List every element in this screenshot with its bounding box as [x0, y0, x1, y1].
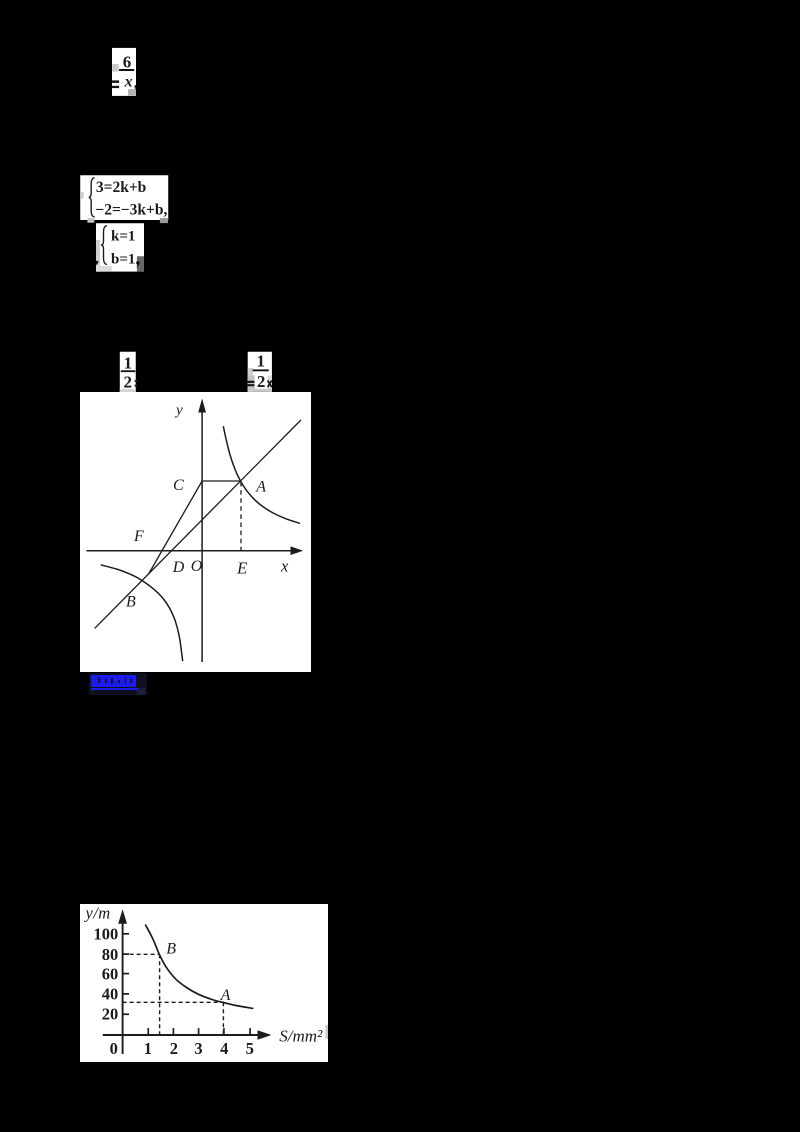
- equation system 1: 3=2k+b ; -2=-3k+b: [80, 175, 172, 225]
- svg-text:2: 2: [257, 372, 266, 391]
- svg-text:E: E: [236, 558, 248, 577]
- svg-text:60: 60: [102, 964, 119, 983]
- curve: [145, 924, 253, 1008]
- svg-text:3: 3: [194, 1038, 202, 1057]
- svg-text:O: O: [191, 558, 203, 575]
- segment CA: [202, 480, 240, 482]
- svg-text:80: 80: [102, 944, 119, 963]
- hyperbola upper branch: [223, 426, 300, 523]
- line AB: [94, 420, 300, 628]
- svg-text:40: 40: [102, 984, 119, 1003]
- x axis: [103, 1034, 259, 1036]
- svg-text:2: 2: [123, 373, 132, 392]
- fraction 1/2 (first): [119, 351, 139, 393]
- segment BC: [148, 481, 202, 574]
- svg-text:F: F: [133, 528, 144, 545]
- x axis: [86, 550, 293, 552]
- dashed helper lines: [123, 953, 160, 955]
- x ticks: [147, 1028, 149, 1035]
- svg-text:B: B: [166, 940, 176, 957]
- equation system 2: k=1 ; b=1: [95, 218, 149, 274]
- svg-text:2: 2: [170, 1038, 178, 1057]
- y ticks: [123, 932, 129, 934]
- svg-text:100: 100: [93, 924, 118, 943]
- svg-text:4: 4: [220, 1038, 228, 1057]
- dashed AE: [240, 482, 242, 550]
- blue label below figure: [89, 673, 147, 696]
- svg-text:x: x: [280, 556, 289, 575]
- function chart (graph 2): [80, 904, 328, 1062]
- svg-text:b=1: b=1: [111, 252, 135, 268]
- svg-text:B: B: [126, 594, 136, 611]
- svg-text:3=2k+b: 3=2k+b: [96, 179, 146, 196]
- svg-text:C: C: [173, 477, 184, 494]
- svg-text:0: 0: [110, 1038, 118, 1057]
- svg-text:5: 5: [246, 1038, 254, 1057]
- svg-text:1: 1: [144, 1038, 152, 1057]
- fraction =1/2x (second): [246, 351, 274, 393]
- svg-text:A: A: [220, 986, 231, 1003]
- svg-text:D: D: [172, 559, 185, 576]
- svg-text:1: 1: [124, 354, 132, 373]
- hyperbola lower branch: [100, 565, 182, 661]
- coordinate-plane figure (graph 1): [80, 392, 311, 672]
- svg-text:−2=−3k+b,: −2=−3k+b,: [95, 201, 167, 218]
- fraction 6/x equation image: [110, 46, 140, 98]
- svg-text:S/mm²: S/mm²: [279, 1026, 323, 1045]
- svg-text:1: 1: [256, 352, 265, 371]
- y axis: [201, 408, 203, 662]
- svg-text:y/m: y/m: [84, 904, 111, 922]
- svg-text:k=1: k=1: [111, 228, 135, 244]
- svg-text:6: 6: [123, 52, 132, 71]
- y axis: [122, 920, 124, 1054]
- svg-text:y: y: [174, 403, 183, 419]
- svg-text:20: 20: [102, 1004, 119, 1023]
- svg-text:x: x: [124, 74, 133, 91]
- svg-text:A: A: [255, 478, 266, 495]
